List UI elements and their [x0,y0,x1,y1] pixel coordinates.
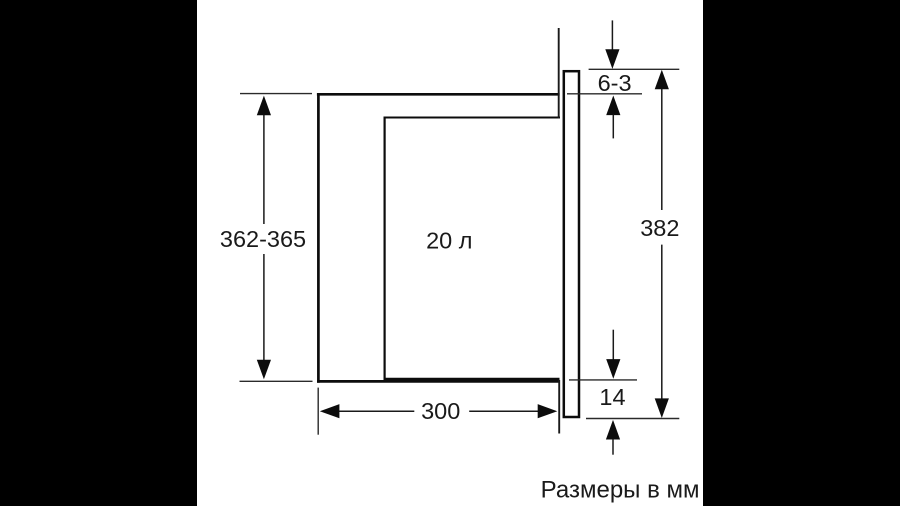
cabinet front edge upper segment [558,28,560,119]
dimension 300 arrowhead right [538,404,558,418]
cavity bottom line [384,378,560,380]
dimension line 300 shaft [335,410,539,412]
extension line 300 left vertical [317,388,319,435]
dimension 362-365 arrowhead up [257,96,271,116]
dimension 362-365 arrowhead down [257,360,271,380]
dimension 6-3 upper arrow shaft [611,20,613,50]
dimension 300 arrowhead left [320,404,340,418]
extension line door bottom (right) [586,418,679,420]
dimension 6-3 upper arrowhead [605,49,619,69]
dimension 6-3 lower arrow shaft [612,115,614,139]
extension line door top (right) [589,68,680,70]
svg-text:6-3: 6-3 [598,70,632,96]
dimension 382 arrowhead down [655,398,669,418]
cavity left wall [384,117,386,381]
outer niche top line [317,93,560,96]
svg-text:14: 14 [599,384,625,410]
cavity top line [384,116,560,118]
dimension line 382 shaft [661,86,663,402]
dimension 6-3 lower arrowhead [606,96,620,116]
extension line niche top (right of wall) [567,93,642,95]
dimension line 362-365 shaft [263,112,265,362]
svg-text:Размеры в мм: Размеры в мм [541,477,700,504]
svg-text:20 л: 20 л [426,227,472,253]
svg-text:382: 382 [640,215,679,241]
extension line cavity bottom (right of wall) [569,379,637,381]
white content background [197,0,703,506]
dimension 14 upper arrow shaft [612,330,614,361]
outer niche bottom line [317,380,560,383]
dimension 14 lower arrow shaft [612,439,614,455]
dimension 382 arrowhead up [655,70,669,90]
dimension 14 lower arrowhead [606,420,620,440]
cabinet front edge lower segment [558,380,560,434]
extension line top-left (niche top) [240,93,312,95]
svg-text:300: 300 [421,398,460,424]
dimension 14 upper arrowhead [606,359,620,379]
svg-text:362-365: 362-365 [220,226,306,252]
door panel [564,71,579,417]
outer niche left wall [317,93,320,383]
extension line bottom-left (niche bottom) [240,380,313,382]
